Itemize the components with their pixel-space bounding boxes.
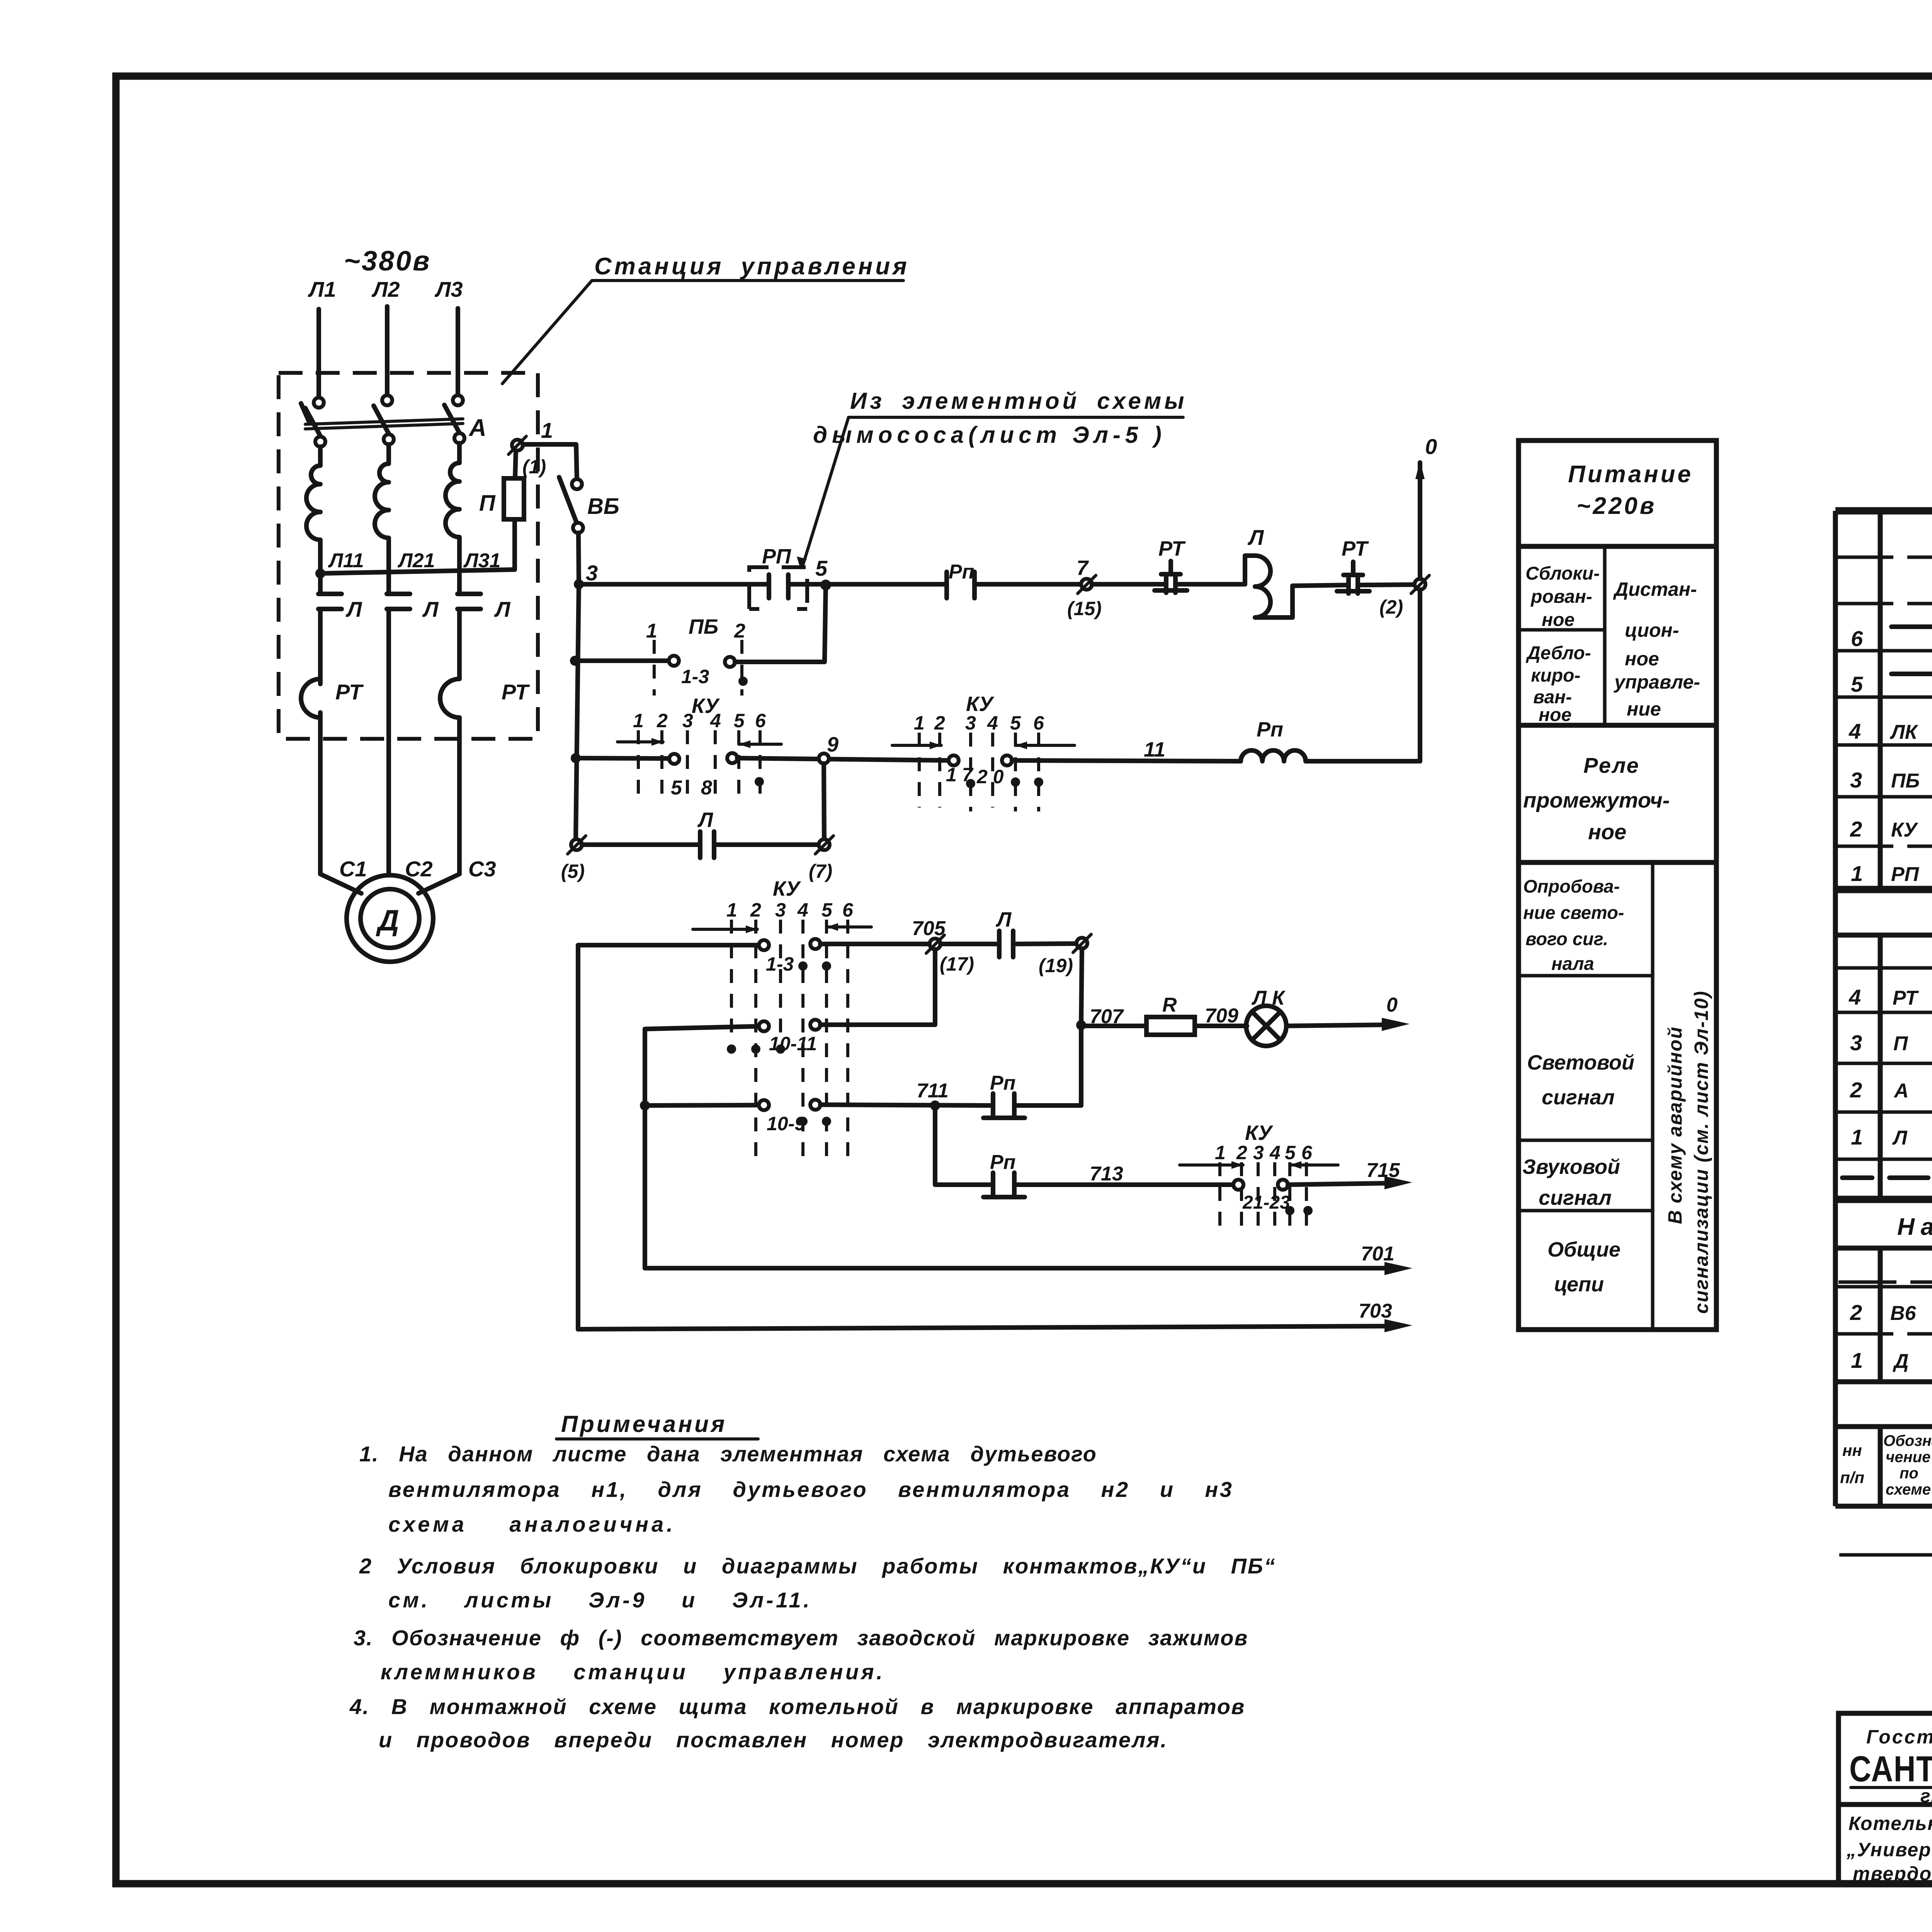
P row bottom [1835,1062,1932,1065]
svg-text:Д: Д [376,904,399,937]
parts table frame left [1833,511,1838,1506]
row6 bottom [1835,649,1932,653]
KU contact 21-23 circles [1233,1180,1243,1190]
junction on 701 riser [640,1100,650,1111]
PB selector dashed box [749,567,807,609]
svg-text:701: 701 [1361,1243,1395,1265]
svg-text:ние свето-: ние свето- [1523,902,1624,923]
svg-text:1: 1 [914,712,925,734]
parts table verticals section2 [1880,935,1932,1199]
fuse P [504,478,524,519]
wire phase1 to contactor [318,564,323,594]
svg-text:твердом топливе: твердом топливе [1853,1863,1932,1884]
function table vertical Sblok column [1603,546,1607,725]
KU rung3 travel tick left [617,740,663,743]
svg-text:Сблоки-: Сблоки- [1526,563,1600,584]
breaker linkage bar [305,419,463,424]
rung5 wire to L contact [940,942,999,946]
rung5 wire to 705 [820,942,930,946]
header verticals [1880,1427,1932,1506]
svg-text:ПБ: ПБ [689,615,718,638]
L row bottom [1835,1158,1932,1161]
svg-text:Рп: Рп [990,1072,1015,1094]
svg-text:схема аналогична.: схема аналогична. [388,1512,676,1536]
contact L aux rung4 [700,832,714,858]
junction node 707 [1076,1020,1086,1030]
svg-text:3: 3 [775,899,786,921]
row2 bottom [1835,845,1932,848]
wire RT2 to terminal 2 [1358,585,1415,585]
rung3 wire to junction 9 [737,758,949,760]
svg-text:КУ: КУ [773,877,801,900]
svg-text:6: 6 [1033,712,1044,734]
arrow 701 [1384,1262,1412,1275]
KU lower travel tick left [693,928,757,931]
KU lower dashed columns [730,920,733,1043]
title block outer [1838,1713,1932,1884]
rung 4 wire right [714,842,819,847]
svg-text:„Универсал - 6М“ на: „Универсал - 6М“ на [1846,1839,1932,1861]
svg-text:Рп: Рп [949,561,974,583]
row4 bottom [1835,743,1932,747]
svg-text:0: 0 [1386,994,1398,1016]
section3 row line [1835,1285,1932,1289]
svg-text:Общие: Общие [1548,1238,1621,1261]
svg-text:2 Условия блокировки и диагр: 2 Условия блокировки и диаграммы работы … [359,1554,1276,1578]
breaker handle stub [301,403,310,423]
header top [1835,1424,1932,1429]
svg-text:Обозна-: Обозна- [1883,1432,1932,1449]
terminal (19) [1077,938,1087,949]
svg-text:Л: Л [1892,1127,1908,1149]
svg-text:ное: ное [1539,705,1571,725]
wire phase 2 drop [385,306,389,395]
svg-text:Дистан-: Дистан- [1613,578,1697,600]
svg-text:РТ: РТ [502,680,530,704]
svg-text:713: 713 [1090,1163,1123,1185]
svg-text:R: R [1162,994,1177,1016]
leader to control station box [502,281,592,384]
contact L aux rung5 [999,931,1013,957]
KU contact 17-20 circles [949,755,959,765]
svg-text:РТ: РТ [1342,537,1369,560]
svg-text:4: 4 [1269,1142,1281,1163]
svg-text:703: 703 [1359,1300,1392,1322]
svg-text:Звуковой: Звуковой [1522,1155,1620,1179]
svg-text:сигнал: сигнал [1542,1086,1615,1109]
net 703 riser and rung5 start [578,945,759,1329]
wire to RT1 [1092,582,1166,587]
KU 17-20 travel tick left [892,744,941,747]
svg-text:1. На данном листе дана элем: 1. На данном листе дана элементная схема… [359,1442,1097,1466]
relay coil RP [1241,750,1306,761]
svg-text:Рп: Рп [1257,718,1283,741]
svg-text:21-23: 21-23 [1242,1192,1290,1213]
terminal (1) [512,440,523,451]
svg-text:РП: РП [762,545,791,568]
svg-text:~380в: ~380в [344,246,431,277]
svg-text:КУ: КУ [1891,819,1918,841]
svg-text:(2): (2) [1379,596,1403,618]
svg-text:Примечания: Примечания [561,1411,727,1437]
section2 bottom heavy [1835,1196,1932,1203]
terminal (5) [571,839,582,850]
header bottom [1835,1504,1932,1509]
svg-text:Из элементной схемы: Из элементной схемы [850,388,1187,414]
svg-text:ное: ное [1625,648,1659,670]
svg-text:(1): (1) [522,456,546,478]
svg-text:Питание: Питание [1568,461,1693,488]
svg-text:1: 1 [1851,1348,1863,1372]
terminal 705 (17) [930,939,940,949]
svg-text:Л21: Л21 [397,549,435,572]
parts table verticals section3 [1880,1248,1932,1382]
PB col dashed 2 [740,640,743,696]
row5 bottom [1835,696,1932,699]
wire node1 to fuse to tap [515,451,516,570]
rung5 wire to (19) [1013,944,1077,944]
svg-text:дымососа(лист Эл-5 ): дымососа(лист Эл-5 ) [813,422,1166,448]
svg-text:Л: Л [422,597,439,621]
rung 2: junction [570,656,580,666]
net 701 riser and rung6 start [645,1026,759,1268]
svg-text:Реле: Реле [1583,753,1640,777]
svg-text:Л: Л [494,597,511,621]
rung2 wire right up to node5 [735,585,826,662]
svg-text:промежуточ-: промежуточ- [1523,788,1670,812]
wire below contactor [318,609,323,679]
svg-text:Л2: Л2 [371,277,400,301]
svg-text:4. В монтажной схеме щита к: 4. В монтажной схеме щита котельной в ма… [349,1694,1245,1719]
junction node 711 [930,1100,940,1111]
svg-text:сигнализации (см. лист Эл-10: сигнализации (см. лист Эл-10) [1690,990,1712,1314]
svg-text:(15): (15) [1067,598,1102,619]
RT row bottom [1835,1011,1932,1014]
rung 7 wire left [645,1105,759,1105]
KU lower travel tick right [827,925,871,929]
svg-text:5: 5 [734,710,745,731]
rung6 wire right riser to 705 [820,949,935,1025]
svg-text:2: 2 [1850,817,1862,841]
svg-text:1: 1 [646,620,657,642]
svg-text:2: 2 [734,620,745,642]
right bus down to rung3 [1418,590,1422,761]
svg-text:9: 9 [827,733,838,756]
rung3 wire coil to right bus [1306,759,1420,764]
contact RP rung1 [947,572,975,598]
svg-text:рован-: рован- [1530,587,1592,607]
svg-text:1: 1 [1851,1125,1863,1149]
svg-text:чение: чение [1886,1449,1930,1466]
svg-text:2 0: 2 0 [976,766,1004,787]
svg-text:2: 2 [1236,1142,1247,1163]
svg-text:РТ: РТ [1893,987,1919,1009]
dots KU 17-20 [966,779,975,788]
svg-text:см. листы Эл-9 и Эл-11.: см. листы Эл-9 и Эл-11. [388,1588,812,1612]
svg-text:ПБ: ПБ [1891,770,1920,792]
svg-text:(17): (17) [940,953,974,975]
rung8 wire to KU 21-23 [1014,1182,1233,1187]
terminal 7 (15) [1081,579,1092,590]
junction circle at 9 [819,753,829,764]
motor D [347,875,433,962]
svg-text:5: 5 [1851,672,1863,696]
thermal relay RT element phase 1 [301,679,320,718]
rung7 wire right riser to 707 [1014,1030,1081,1105]
svg-text:11: 11 [1144,738,1165,761]
svg-text:управле-: управле- [1613,671,1700,693]
circuit breaker A pole 1 [314,398,324,408]
KU rung3 travel tick right [739,743,781,746]
parts table row dashed blank2 [1835,602,1932,605]
net 703 wire [578,1326,1391,1329]
contactor L main contact phase 2 [387,594,410,609]
KU 21-23 travel tick right [1290,1163,1338,1167]
function table line below Oprobovanie [1519,974,1653,978]
svg-text:ЛК: ЛК [1889,721,1918,743]
svg-text:ВБ: ВБ [587,494,619,519]
svg-text:3: 3 [586,561,598,585]
leader from dymososa note into PB box [803,417,849,565]
riser 711 down [935,1111,993,1185]
svg-text:Госстрой: Госстрой [1866,1726,1932,1748]
svg-text:10-11: 10-11 [769,1033,817,1054]
junction at phase 1 tap [315,568,325,578]
contactor L main contact phase 1 [318,594,342,609]
svg-text:(19): (19) [1039,955,1073,976]
contact RP rung7 [983,1094,1025,1118]
arrow 703 [1384,1319,1412,1332]
row3 bottom [1835,795,1932,799]
wire phase 1 drop [316,309,321,398]
contact RT rung1 left [1155,577,1187,593]
wire 707 to resistor [1081,1024,1146,1028]
arrow 0 top [1415,461,1425,479]
junction node 3 [574,579,584,589]
svg-text:А: А [468,415,486,441]
section2 top [1835,933,1932,938]
title block left divider [1838,1802,1932,1807]
parts table top [1835,507,1932,515]
KU contact 5-8 circles [669,754,679,764]
svg-text:4: 4 [1849,719,1861,743]
svg-text:5: 5 [671,777,682,799]
St upr row texts [1842,1175,1928,1180]
svg-text:Дебло-: Дебло- [1526,643,1591,663]
right bus to 0 [1418,463,1422,579]
svg-text:Опробова-: Опробова- [1523,876,1620,896]
svg-text:А: А [1893,1080,1909,1102]
svg-text:схеме: схеме [1886,1481,1931,1498]
dots KU 21-23 [1285,1206,1294,1215]
rung 3 wire left [576,758,669,759]
svg-text:5: 5 [1010,712,1021,734]
dot mark PB diagram [738,677,748,686]
rung1 wire PB box to node5 [788,582,947,587]
function table row line below Pitanie [1519,544,1716,549]
vertical 9 to terminal (7) [824,764,824,839]
svg-text:П: П [479,491,496,516]
svg-text:Л: Л [1247,525,1264,549]
svg-text:САНТЕХПРОЕКТ: САНТЕХПРОЕКТ [1849,1748,1932,1789]
svg-text:5: 5 [821,899,833,921]
svg-text:Л: Л [995,908,1012,931]
svg-text:Д: Д [1893,1350,1909,1372]
svg-text:На щите станций управления: На щите станций управления ЩСУ [1897,1214,1932,1240]
A row bottom [1835,1111,1932,1114]
circuit breaker A pole 3 [453,395,463,405]
thermal heater element phase 2 [375,444,389,564]
svg-text:4: 4 [710,710,721,731]
station control cabinet dashed box [279,373,538,739]
KU 21-23 dashed columns [1218,1162,1221,1233]
svg-text:ние: ние [1627,698,1661,720]
KU 17-20 dashed columns [918,733,921,808]
svg-text:3: 3 [682,710,693,731]
KU 21-23 travel tick left [1180,1163,1243,1167]
svg-text:1: 1 [1215,1142,1226,1163]
parts table row dashed blank1 [1835,556,1932,559]
svg-text:нала: нала [1551,953,1594,974]
svg-text:1: 1 [633,710,644,731]
wire to motor ph3 [418,718,459,893]
svg-text:6: 6 [755,710,766,731]
D row bottom [1835,1379,1932,1384]
svg-text:В6: В6 [1890,1302,1917,1325]
wire to motor ph1 [320,718,361,893]
svg-text:В схему аварийной: В схему аварийной [1664,1026,1686,1224]
riser (19) to node 707 [1081,949,1082,1025]
svg-text:цепи: цепи [1554,1273,1604,1296]
wire coil to RT2 [1293,585,1349,586]
svg-text:РП: РП [1891,863,1920,886]
contact PB 1-3 circles [669,656,679,666]
function table line below Zvukovoy [1519,1209,1653,1213]
contactor coil L [1245,556,1293,617]
svg-text:РТ: РТ [335,680,364,704]
svg-text:г. Москва 1971г.: г. Москва 1971г. [1920,1786,1932,1806]
wire RT1 to coil L [1175,582,1245,587]
svg-text:3: 3 [965,712,976,734]
wire resistor to lamp [1195,1024,1247,1028]
svg-text:2: 2 [934,712,945,734]
svg-text:3. Обозначение ф (-) соответс: 3. Обозначение ф (-) соответствует завод… [354,1626,1248,1650]
contactor L main contact phase 3 [457,594,481,609]
thermal relay RT element phase 3 [440,679,459,718]
contact RT rung1 right [1337,578,1369,594]
PB contact inside box [769,575,788,598]
svg-text:ное: ное [1542,610,1575,630]
svg-text:(5): (5) [561,861,585,882]
svg-text:Л: Л [697,808,714,832]
svg-text:Л11: Л11 [328,549,364,572]
svg-text:вого сиг.: вого сиг. [1526,929,1608,949]
svg-text:С3: С3 [468,857,496,881]
svg-text:6: 6 [842,899,854,921]
svg-text:0: 0 [1425,434,1437,459]
svg-text:П: П [1893,1032,1908,1055]
bus node3 to (5) [576,584,579,839]
KU contact 10-9 circles rung7 [759,1100,769,1110]
contact RP rung8 [983,1173,1025,1197]
svg-text:~220в: ~220в [1577,493,1656,519]
terminal (2) [1415,579,1425,590]
svg-text:п/п: п/п [1840,1468,1864,1486]
svg-text:сигнал: сигнал [1539,1186,1612,1209]
function table vertical signal column [1651,862,1655,1330]
section2 blank row bottom [1835,966,1932,970]
rung 3: junction [571,753,581,763]
svg-text:киро-: киро- [1531,665,1580,686]
section3 partial dashes [1838,1281,1932,1284]
row1 bottom heavy [1835,886,1932,893]
function table line below Svetovoy [1519,1139,1653,1142]
svg-text:1: 1 [541,418,553,442]
svg-text:711: 711 [917,1080,949,1102]
rung7 wire to 711 [820,1105,993,1105]
svg-text:Станция управления: Станция управления [594,253,910,280]
terminal (7) [819,839,830,850]
resistor R [1146,1017,1195,1035]
rung 4 wire left [582,842,700,847]
svg-text:4: 4 [1849,985,1861,1009]
svg-text:вентилятора н1, для дутьево: вентилятора н1, для дутьевого вентилятор… [388,1477,1233,1502]
svg-text:705: 705 [912,917,946,940]
svg-text:клеммников станции управлени: клеммников станции управления. [381,1660,885,1684]
svg-text:2: 2 [1850,1300,1862,1325]
svg-text:Л К: Л К [1251,987,1286,1009]
svg-text:715: 715 [1366,1159,1400,1182]
svg-text:Рп: Рп [990,1151,1015,1173]
svg-text:Л3: Л3 [434,277,463,301]
lamp LK [1246,1006,1286,1046]
dots KU rung5 [798,961,808,971]
svg-text:2: 2 [750,899,761,921]
parts table verticals section1 [1880,511,1932,889]
wire VB to node 3 [578,533,579,584]
svg-text:Световой: Световой [1527,1051,1634,1074]
KU 17-20 travel tick right [1015,744,1075,747]
dots KU rung6 [727,1044,736,1054]
circuit breaker A pole 2 [382,395,392,405]
arrow 715 [1384,1176,1412,1189]
KU rung3 dashed columns [637,730,640,800]
svg-text:по: по [1900,1465,1918,1482]
control tap wire to fuse [320,570,515,573]
KU contact 10-11 circles rung6 [759,1021,769,1031]
svg-text:КУ: КУ [1245,1121,1273,1145]
svg-text:3: 3 [1850,768,1862,792]
svg-text:1-3: 1-3 [766,953,794,975]
switch VB [572,479,582,489]
svg-text:Л1: Л1 [308,277,336,301]
net 701 wire [645,1266,1391,1270]
svg-text:нн: нн [1842,1441,1862,1459]
function table outer box [1519,440,1716,1330]
svg-text:5: 5 [815,556,828,580]
svg-text:6: 6 [1301,1142,1313,1163]
wire lamp to 0 arrow [1286,1025,1391,1026]
dot mark KU rung3 [755,777,764,786]
function table line below Rele promezhut [1519,860,1716,865]
svg-text:8: 8 [701,777,712,799]
arrow 0 [1382,1018,1410,1031]
svg-text:1: 1 [1851,861,1863,886]
svg-text:6: 6 [1851,626,1863,651]
PB col dashed 1 [653,640,656,696]
svg-text:и проводов впереди поставлен: и проводов впереди поставлен номер элект… [379,1728,1168,1752]
thermal heater element phase 3 [446,443,459,564]
